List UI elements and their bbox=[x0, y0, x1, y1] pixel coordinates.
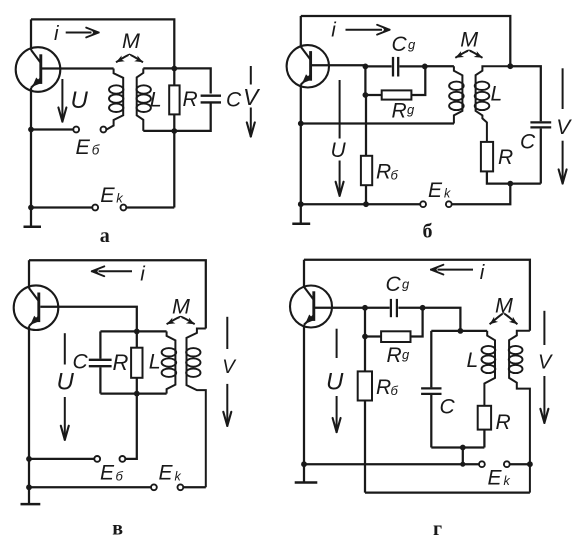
wire base to coil б bbox=[425, 65, 454, 67]
wire C branch bottom в bbox=[99, 367, 101, 393]
wire Rg right lead г bbox=[411, 308, 423, 337]
wire C branch bottom г bbox=[430, 395, 432, 448]
svg-text:M: M bbox=[460, 27, 478, 51]
voltage arrow U б bbox=[336, 161, 344, 197]
arrow i г bbox=[431, 265, 473, 275]
wire main vertical lower а bbox=[173, 115, 175, 208]
node Eб junction а bbox=[28, 127, 34, 133]
wire emitter down г bbox=[303, 325, 305, 464]
capacitor Cg plates (г) bbox=[391, 299, 397, 317]
wire Eб left в bbox=[29, 458, 94, 460]
voltage arrow V в bbox=[223, 384, 231, 427]
wire R branch bottom в bbox=[136, 378, 138, 394]
wire tank to Ek г bbox=[462, 448, 464, 465]
svg-text:C: C bbox=[440, 395, 456, 418]
capacitor Cg plates (б) bbox=[393, 57, 398, 77]
wire Cg right lead б bbox=[400, 65, 425, 67]
wire Eб left а bbox=[31, 128, 73, 130]
wire Eб link в bbox=[125, 394, 137, 459]
wire tank top а bbox=[143, 68, 210, 93]
wire Rg branch б bbox=[365, 66, 381, 95]
voltage U segment г bbox=[336, 329, 338, 358]
voltage arrow U а bbox=[58, 79, 66, 122]
wire base lead г bbox=[315, 307, 365, 309]
inductor secondary coil (в) bbox=[186, 329, 206, 488]
node junction tank bottom а bbox=[171, 128, 177, 134]
node tank top junction в bbox=[134, 329, 140, 335]
svg-text:R: R bbox=[387, 344, 402, 367]
wire tank top г bbox=[431, 330, 487, 332]
wire base lead в bbox=[40, 307, 137, 332]
mutual arrow M в bbox=[167, 317, 195, 324]
svg-text:U: U bbox=[326, 368, 344, 395]
voltage arrow V а bbox=[247, 108, 255, 138]
wire Rб bottom б bbox=[365, 185, 367, 204]
wire collector а bbox=[30, 19, 32, 50]
wire bottom return г bbox=[365, 491, 530, 493]
wire Rб top б bbox=[365, 95, 367, 156]
ground а bbox=[24, 208, 42, 227]
wire Rg branch г bbox=[365, 308, 381, 337]
svg-text:в: в bbox=[112, 518, 123, 540]
svg-text:C: C bbox=[392, 33, 408, 56]
terminal Eб right (а) bbox=[101, 127, 107, 133]
wire C branch top в bbox=[99, 331, 101, 358]
wire top rail г bbox=[304, 260, 530, 331]
wire collector в bbox=[28, 260, 30, 288]
resistor R (г) bbox=[478, 406, 491, 430]
wire bottom left б bbox=[301, 203, 420, 205]
svg-text:k: k bbox=[504, 474, 511, 488]
wire Rg right lead б bbox=[411, 66, 425, 95]
svg-text:U: U bbox=[331, 139, 347, 162]
wire tank bottom в bbox=[100, 392, 166, 394]
wire Cg left lead г bbox=[365, 307, 390, 309]
node Cg left junction б bbox=[363, 64, 369, 70]
wire collector б bbox=[300, 16, 302, 47]
wire Cg to tank г bbox=[423, 308, 461, 331]
node junction tank top а bbox=[171, 66, 177, 72]
inductor primary coil (а) bbox=[107, 69, 124, 130]
svg-text:C: C bbox=[520, 131, 536, 154]
svg-text:L: L bbox=[467, 349, 479, 372]
svg-text:E: E bbox=[428, 179, 443, 202]
voltage V segment в bbox=[226, 317, 228, 349]
wire top rail б bbox=[301, 16, 511, 66]
wire tank top в bbox=[100, 330, 166, 332]
voltage arrow V б bbox=[559, 141, 567, 184]
voltage V segment б bbox=[562, 68, 564, 109]
terminal Eб right (в) bbox=[120, 456, 126, 462]
resistor Rб (г) bbox=[358, 371, 372, 400]
inductor L primary coil (в) bbox=[162, 331, 177, 393]
voltage arrow V г bbox=[540, 376, 548, 423]
node Rg left junction г bbox=[362, 334, 368, 340]
ground б bbox=[292, 204, 310, 224]
voltage V segment г bbox=[543, 311, 545, 345]
svg-text:C: C bbox=[73, 350, 89, 373]
svg-text:C: C bbox=[226, 89, 242, 112]
node Cg right junction г bbox=[420, 305, 426, 311]
node emitter bottom junction б bbox=[298, 201, 304, 207]
svg-text:R: R bbox=[376, 161, 391, 184]
svg-text:R: R bbox=[113, 350, 129, 375]
node right junction г bbox=[527, 461, 533, 467]
capacitor C plates (а) bbox=[201, 96, 221, 103]
terminal Ek right (б) bbox=[446, 201, 452, 207]
terminal Ek right (г) bbox=[504, 461, 510, 467]
node Cg right junction б bbox=[422, 64, 428, 70]
node Ek junction а bbox=[28, 205, 34, 211]
svg-text:б: б bbox=[391, 383, 399, 398]
wire R branch top в bbox=[136, 331, 138, 347]
capacitor C plates (в) bbox=[89, 360, 112, 366]
svg-text:б: б bbox=[92, 143, 100, 158]
voltage U segment в bbox=[64, 333, 66, 364]
wire Ek to tank б bbox=[452, 184, 511, 205]
svg-text:g: g bbox=[402, 277, 410, 292]
wire Ek left в bbox=[29, 486, 151, 488]
terminal Ek right (а) bbox=[121, 205, 127, 211]
svg-text:а: а bbox=[100, 225, 110, 247]
wire top rail в bbox=[29, 260, 206, 328]
svg-text:g: g bbox=[408, 37, 416, 52]
ground г bbox=[295, 464, 318, 482]
wire Ek right в bbox=[183, 486, 206, 488]
wire emitter down б bbox=[300, 84, 302, 204]
node tank stub junction г bbox=[460, 462, 465, 467]
inductor L secondary coil (б) bbox=[475, 66, 511, 142]
svg-text:E: E bbox=[100, 183, 115, 207]
svg-text:U: U bbox=[71, 87, 89, 114]
svg-text:R: R bbox=[183, 88, 198, 111]
svg-text:R: R bbox=[496, 411, 511, 434]
resistor Rg (г) bbox=[381, 331, 410, 342]
arrow i а bbox=[66, 28, 99, 38]
svg-text:C: C bbox=[386, 273, 402, 296]
svg-text:E: E bbox=[488, 466, 503, 489]
wire base lead VT (а) bbox=[42, 67, 114, 69]
wire top rail а bbox=[31, 19, 174, 85]
svg-text:L: L bbox=[491, 83, 503, 106]
node emitter bottom junction г bbox=[301, 461, 307, 467]
terminal Ek left (а) bbox=[92, 205, 98, 211]
wire Rб bottom down г bbox=[364, 401, 366, 493]
wire top to C б bbox=[510, 66, 541, 121]
svg-text:V: V bbox=[556, 116, 572, 139]
svg-text:M: M bbox=[122, 29, 140, 53]
wire collector г bbox=[303, 260, 305, 288]
wire tank bottom г bbox=[431, 446, 484, 448]
svg-text:g: g bbox=[407, 102, 415, 117]
wire base lead VT (б) bbox=[312, 64, 366, 66]
node emitter junction б bbox=[298, 121, 304, 127]
node Cg left junction г bbox=[362, 305, 368, 311]
node Rg left junction б bbox=[363, 92, 369, 98]
voltage U segment б bbox=[339, 80, 341, 139]
wire C bottom б bbox=[540, 129, 542, 184]
inductor L primary coil (г) bbox=[482, 331, 496, 406]
svg-text:M: M bbox=[172, 294, 190, 318]
wire Ek left а bbox=[31, 206, 92, 208]
svg-text:g: g bbox=[402, 347, 410, 362]
svg-text:k: k bbox=[175, 469, 182, 483]
ground в bbox=[21, 487, 41, 504]
terminal Eб left (а) bbox=[73, 127, 79, 133]
capacitor C plates (б) bbox=[530, 122, 551, 127]
resistor R (а) bbox=[169, 85, 179, 114]
wire R bottom г bbox=[483, 430, 485, 448]
inductor primary coil (б) bbox=[449, 66, 464, 123]
svg-text:R: R bbox=[498, 146, 513, 169]
transistor VT (г) bbox=[290, 286, 332, 328]
node R-C bottom junction б bbox=[507, 181, 513, 187]
wire Ek left г bbox=[304, 463, 479, 465]
svg-text:k: k bbox=[444, 187, 451, 201]
node tank top junction г bbox=[458, 328, 464, 334]
svg-text:б: б bbox=[116, 468, 124, 483]
svg-text:M: M bbox=[495, 294, 513, 318]
arrow i б bbox=[346, 25, 390, 35]
svg-text:V: V bbox=[538, 351, 553, 373]
wire Ek right а bbox=[126, 206, 174, 208]
wire emitter to coil б bbox=[301, 122, 454, 124]
wire Cg right lead г bbox=[398, 307, 422, 309]
inductor secondary coil (г) bbox=[509, 331, 530, 493]
node top-right junction б bbox=[507, 63, 513, 69]
terminal Ek left (б) bbox=[420, 201, 426, 207]
svg-text:E: E bbox=[100, 462, 115, 485]
svg-text:г: г bbox=[433, 518, 442, 540]
svg-text:E: E bbox=[76, 135, 91, 159]
svg-text:L: L bbox=[150, 87, 162, 111]
svg-text:б: б bbox=[391, 167, 399, 182]
node Ek junction в bbox=[26, 484, 32, 490]
transistor VT (б) bbox=[287, 45, 329, 87]
wire Ek right г bbox=[510, 463, 530, 465]
wire emitter down а bbox=[30, 88, 32, 208]
arrow i в bbox=[92, 266, 132, 276]
wire emitter down в bbox=[28, 326, 30, 487]
wire R bottom б bbox=[487, 171, 541, 183]
mutual arrow M б bbox=[455, 51, 482, 58]
node Rб bottom junction б bbox=[363, 201, 369, 207]
capacitor C plates (г) bbox=[421, 388, 441, 394]
wire Rб top г bbox=[364, 337, 366, 372]
svg-text:б: б bbox=[423, 221, 433, 243]
terminal Ek right (в) bbox=[178, 484, 184, 490]
transistor VT (в) bbox=[14, 285, 59, 330]
transistor VT (а) bbox=[16, 47, 61, 92]
node tank bottom junction в bbox=[134, 391, 140, 397]
voltage arrow U г bbox=[333, 396, 341, 433]
resistor R (в) bbox=[131, 348, 142, 378]
resistor Rб (б) bbox=[361, 156, 372, 185]
svg-text:L: L bbox=[149, 349, 161, 373]
resistor R (б) bbox=[481, 142, 493, 172]
wire tank bottom а bbox=[143, 103, 210, 130]
wire Cg left lead б bbox=[365, 65, 391, 67]
node Eб junction в bbox=[26, 456, 32, 462]
mutual arrow M а bbox=[116, 55, 143, 63]
svg-text:E: E bbox=[159, 462, 174, 485]
wire C branch top г bbox=[430, 331, 432, 388]
svg-text:R: R bbox=[376, 376, 391, 399]
mutual arrow M г bbox=[490, 313, 518, 324]
svg-text:V: V bbox=[243, 84, 261, 110]
terminal Ek left (г) bbox=[479, 461, 485, 467]
terminal Eб left (в) bbox=[94, 456, 100, 462]
terminal Ek left (в) bbox=[151, 484, 157, 490]
voltage V segment а bbox=[250, 66, 252, 85]
inductor L secondary coil (а) bbox=[137, 68, 151, 130]
resistor Rg (б) bbox=[382, 90, 412, 99]
node tank bottom junction г bbox=[460, 445, 466, 451]
svg-text:R: R bbox=[392, 100, 407, 123]
voltage arrow U в bbox=[61, 397, 69, 440]
